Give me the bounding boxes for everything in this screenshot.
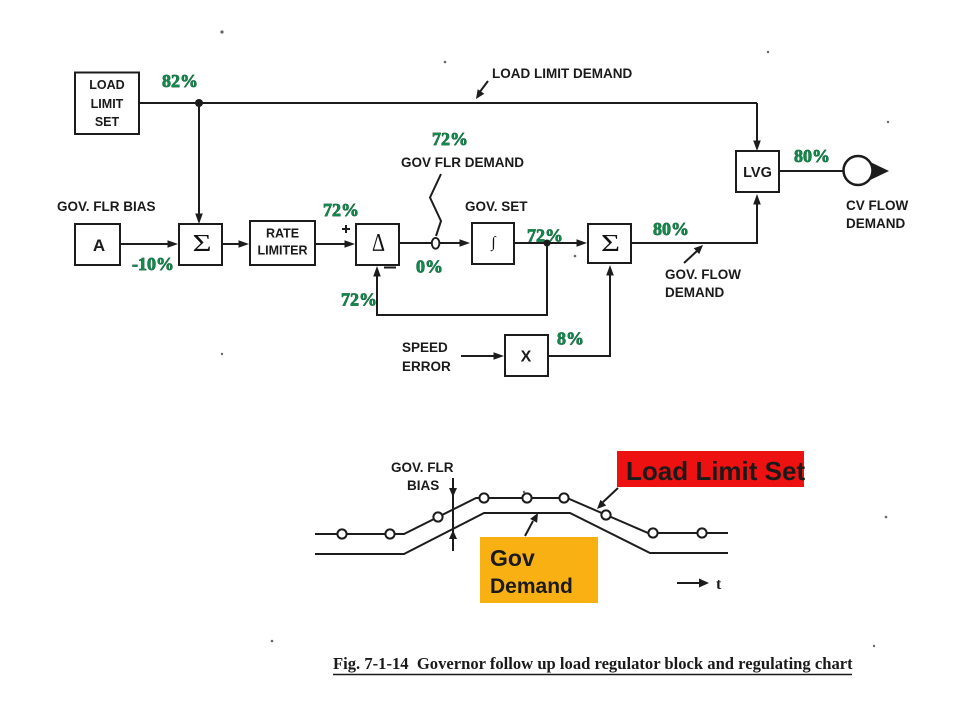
chart lower curve gov demand [315, 513, 728, 554]
svg-text:80%: 80% [794, 146, 830, 166]
svg-text:Fig. 7-1-14 Governor follow u: Fig. 7-1-14 Governor follow up load regu… [333, 654, 853, 673]
block A (gov flr bias input) [75, 224, 120, 265]
svg-text:X: X [521, 349, 532, 366]
label SPEED ERROR [402, 340, 451, 374]
wire load limit demand (horizontal from LOAD LIMIT SET to LVG drop) [139, 102, 757, 104]
svg-text:DEMAND: DEMAND [846, 216, 905, 231]
svg-text:SPEED: SPEED [402, 340, 448, 355]
svg-text:GOV. FLR BIAS: GOV. FLR BIAS [57, 199, 156, 214]
svg-text:82%: 82% [162, 71, 198, 91]
label plus sign [342, 225, 350, 233]
svg-text:A: A [93, 236, 105, 255]
svg-text:LOAD: LOAD [89, 78, 124, 92]
svg-text:BIAS: BIAS [407, 478, 439, 493]
wire label arrow gov flow demand [684, 245, 703, 263]
svg-text:LVG: LVG [743, 165, 772, 181]
svg-text:72%: 72% [341, 290, 377, 310]
svg-text:RATE: RATE [266, 227, 299, 241]
chart time axis arrow [677, 576, 722, 593]
svg-text:Δ: Δ [372, 230, 385, 257]
wire A to summer 1 [120, 240, 178, 248]
wire summer 1 to rate limiter [222, 240, 249, 248]
wire delta to integrator (through switch) [399, 239, 470, 247]
svg-text:Σ: Σ [601, 231, 620, 257]
svg-text:Gov: Gov [490, 545, 535, 571]
wire junction down to summer 1 [195, 103, 203, 224]
svg-text:LIMIT: LIMIT [91, 97, 124, 111]
svg-text:Demand: Demand [490, 575, 573, 598]
svg-text:DEMAND: DEMAND [665, 285, 724, 300]
svg-text:80%: 80% [653, 219, 689, 239]
svg-text:GOV. SET: GOV. SET [465, 199, 528, 214]
wire orange label arrow to lower curve [525, 513, 538, 536]
wire LVG top drop [753, 103, 761, 151]
actuator circle with arrow (CV flow demand) [844, 156, 890, 185]
node junction at integrator output [544, 240, 551, 247]
highlight orange box Gov Demand [480, 537, 598, 603]
svg-text:SET: SET [95, 115, 120, 129]
svg-text:Load Limit Set: Load Limit Set [626, 456, 805, 486]
svg-text:72%: 72% [432, 129, 468, 149]
block X multiplier [505, 335, 548, 376]
svg-text:LOAD LIMIT DEMAND: LOAD LIMIT DEMAND [492, 66, 632, 81]
svg-text:Σ: Σ [193, 231, 212, 257]
caption figure title [333, 654, 853, 675]
chart bias dimension line with arrows [449, 478, 457, 551]
chart upper curve load limit set [315, 498, 728, 534]
wire integrator to summer 2 [514, 239, 587, 247]
chart circles on load limit set curve [337, 493, 706, 538]
block delta (difference) [356, 224, 399, 265]
block integrator [472, 223, 514, 264]
summer U2 sigma [588, 224, 631, 263]
scan specks [220, 30, 889, 647]
wire rate limiter to delta [315, 240, 355, 248]
svg-text:CV FLOW: CV FLOW [846, 198, 908, 213]
svg-text:72%: 72% [323, 200, 359, 220]
block RATE LIMITER [250, 221, 315, 265]
wire feedback from integrator output to delta minus input [373, 243, 547, 315]
summer U1 sigma [179, 224, 222, 265]
block LVG (low value gate) [736, 151, 779, 192]
switch contact circle [432, 238, 440, 249]
wire summer 2 to LVG [631, 194, 761, 243]
block LOAD LIMIT SET [75, 73, 139, 135]
wire LVG to CV flow actuator [779, 170, 844, 172]
wire multiplier to summer 2 [548, 265, 614, 356]
switch lever [430, 174, 441, 236]
svg-text:8%: 8% [557, 329, 584, 349]
wire red label arrow to upper curve [597, 488, 618, 509]
wire speed error to multiplier [461, 352, 504, 360]
highlight red box Load Limit Set [617, 451, 805, 487]
label CV FLOW DEMAND [846, 198, 908, 231]
label minus sign [384, 267, 396, 269]
svg-text:LIMITER: LIMITER [258, 244, 308, 258]
svg-text:GOV. FLOW: GOV. FLOW [665, 267, 741, 282]
node junction on load limit demand wire [195, 99, 203, 107]
svg-text:0%: 0% [416, 257, 443, 277]
svg-text:GOV FLR DEMAND: GOV FLR DEMAND [401, 155, 524, 170]
svg-text:t: t [716, 576, 722, 593]
label GOV. FLOW DEMAND [665, 267, 741, 300]
wire label arrow to load limit demand line [476, 81, 488, 99]
label GOV. FLR BIAS on chart [391, 460, 454, 493]
svg-text:GOV. FLR: GOV. FLR [391, 460, 454, 475]
svg-text:ERROR: ERROR [402, 359, 451, 374]
svg-text:-10%: -10% [132, 254, 174, 274]
